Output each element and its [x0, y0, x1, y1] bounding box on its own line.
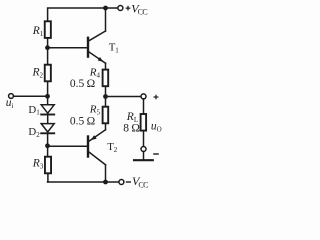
node T2 base junction: [45, 143, 50, 148]
wire R5 to T2 emitter: [105, 123, 107, 130]
node T1 base junction: [45, 45, 50, 50]
diode D2: [41, 124, 54, 134]
label +Vcc plus sign: [126, 6, 131, 11]
wire D1 to D2: [47, 113, 49, 123]
wire D2 to R3: [47, 133, 49, 156]
svg-text:ui: ui: [6, 97, 14, 110]
wire T2 base: [48, 145, 88, 147]
wire bottom rail -Vcc: [48, 181, 119, 183]
svg-text:uO: uO: [151, 121, 162, 134]
node output junction: [103, 94, 108, 99]
terminal output + circle: [141, 94, 146, 99]
wire RL to - terminal: [143, 131, 145, 147]
wire R2 to D1: [47, 81, 49, 105]
resistor RL: [141, 114, 147, 131]
wire R3 to bottom rail: [47, 173, 49, 182]
svg-text:VCC: VCC: [132, 174, 148, 189]
wire - terminal to ground: [143, 152, 145, 160]
wire output node to + terminal: [106, 96, 142, 98]
ground: [134, 159, 153, 161]
node input junction: [45, 94, 50, 99]
resistor R3: [45, 157, 51, 174]
resistor R5: [103, 107, 109, 124]
resistor R2: [45, 65, 51, 82]
terminal -Vcc circle: [119, 180, 124, 185]
svg-text:VCC: VCC: [131, 1, 147, 16]
svg-text:R3: R3: [32, 158, 44, 171]
resistor R4: [103, 70, 109, 87]
svg-text:T2: T2: [107, 141, 118, 154]
svg-text:T1: T1: [109, 42, 120, 55]
wire T1 collector vertical: [105, 8, 107, 31]
svg-text:0.5 Ω: 0.5 Ω: [70, 115, 95, 127]
node T2 collector to rail: [103, 180, 108, 185]
transistor T1: [88, 31, 106, 63]
wire R1 to R2: [47, 38, 49, 65]
diode D1: [41, 105, 54, 115]
terminal +Vcc circle: [118, 6, 123, 11]
svg-text:D2: D2: [28, 126, 40, 139]
wire R4 to R5: [105, 86, 107, 107]
wire input: [13, 95, 45, 97]
label output plus: [154, 95, 159, 100]
svg-text:R1: R1: [32, 25, 44, 38]
terminal input circle: [9, 94, 14, 99]
node collector T1 to rail: [103, 6, 108, 11]
wire T1 emitter to R4: [105, 63, 107, 69]
resistor R1: [45, 21, 51, 38]
wire T2 collector vertical: [105, 165, 107, 182]
wire top rail +Vcc: [48, 8, 118, 21]
wire T1 base: [48, 47, 88, 49]
label -Vcc minus sign: [126, 181, 131, 183]
svg-text:8 Ω: 8 Ω: [123, 123, 140, 135]
label output minus: [153, 153, 159, 155]
svg-text:0.5 Ω: 0.5 Ω: [70, 78, 95, 90]
terminal output - circle: [141, 147, 146, 152]
svg-text:R2: R2: [32, 67, 44, 80]
wire + terminal to RL: [143, 99, 145, 114]
transistor T2: [88, 130, 106, 165]
svg-text:D1: D1: [28, 104, 40, 117]
